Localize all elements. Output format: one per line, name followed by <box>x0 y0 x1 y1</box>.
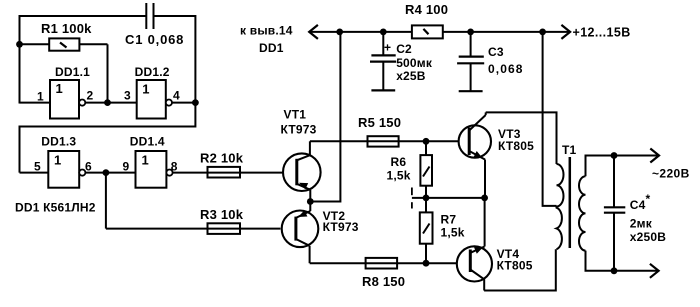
capacitor C4 2mk <box>604 156 666 271</box>
resistor R3 10k <box>200 207 244 234</box>
wire DD1.2 output to right rail <box>172 102 195 104</box>
svg-text:4: 4 <box>173 89 180 103</box>
transistor VT2 KT973 <box>282 202 319 264</box>
svg-text:DD1: DD1 <box>259 41 284 55</box>
node junction output top / C4 <box>611 152 618 159</box>
resistor R7 1.5k <box>420 198 465 263</box>
node junction DD1.2 out / feedback rail <box>192 99 199 106</box>
svg-text:1,5k: 1,5k <box>441 226 465 240</box>
svg-text:DD1.2: DD1.2 <box>135 65 170 79</box>
wire DD1.1 output to DD1.2 input <box>85 102 136 104</box>
wire main supply rail <box>309 31 570 33</box>
svg-text:VT1: VT1 <box>284 108 307 122</box>
node junction R5 wire / R6 top <box>423 138 430 145</box>
svg-text:КТ973: КТ973 <box>323 220 359 234</box>
node junction rail / C2 <box>380 29 387 36</box>
svg-text:DD1 К561ЛН2: DD1 К561ЛН2 <box>15 201 96 215</box>
svg-text:КТ805: КТ805 <box>497 259 533 273</box>
svg-text:C4: C4 <box>630 198 646 212</box>
arrow to pin 14 of DD1 <box>309 25 318 39</box>
resistor R8 150 <box>362 258 405 289</box>
svg-text:1: 1 <box>142 82 149 97</box>
svg-text:3: 3 <box>124 89 131 103</box>
arrow output bottom <box>650 264 659 278</box>
resistor R2 10k <box>200 151 244 178</box>
svg-text:C2: C2 <box>396 42 412 56</box>
wire from C1 right plate to DD1.2 output node <box>154 16 196 103</box>
arrow +12...15V <box>561 25 570 39</box>
svg-text:R4 100: R4 100 <box>405 2 448 17</box>
stub mark left of midpoint <box>411 188 413 196</box>
transistor VT4 KT805 <box>457 198 492 291</box>
svg-text:R1 100k: R1 100k <box>41 21 92 36</box>
svg-text:DD1.3: DD1.3 <box>41 134 76 148</box>
transistor VT3 KT805 <box>459 112 491 197</box>
arrow output top <box>650 149 659 163</box>
node junction VT3 emitter / VT4 emitter / midpoint wire <box>481 195 488 202</box>
wire secondary bottom to output <box>586 251 659 271</box>
resistor R5 150 <box>358 115 401 147</box>
node junction DD1.1 out / R1 feedback <box>104 99 111 106</box>
svg-text:5: 5 <box>34 160 41 174</box>
svg-text:C3: C3 <box>488 45 504 59</box>
svg-text:R7: R7 <box>441 213 457 227</box>
svg-text:9: 9 <box>123 160 130 174</box>
capacitor C2 500mk <box>370 32 433 91</box>
inverter DD1.2 <box>137 80 172 119</box>
wire feedback from DD1.2 output down and left to DD1.3 input <box>20 103 196 173</box>
svg-text:8: 8 <box>171 160 178 174</box>
wire DD1.1 input <box>20 102 51 104</box>
inverter DD1.1 <box>50 80 85 119</box>
svg-text:R3 10k: R3 10k <box>200 207 244 222</box>
svg-text:Т1: Т1 <box>562 143 577 157</box>
wire DD1.3 output to DD1.4 input <box>85 172 135 174</box>
svg-text:C1 0,068: C1 0,068 <box>125 32 184 47</box>
node junction output bottom / C4 <box>611 267 618 274</box>
transformer T1 core <box>569 157 572 248</box>
transformer T1 primary winding <box>557 164 564 249</box>
inverter DD1.3 <box>48 151 85 188</box>
wire DD1.4 output to R2 <box>173 172 283 174</box>
wire secondary top to output <box>586 156 660 177</box>
svg-text:2: 2 <box>87 89 94 103</box>
node junction rail / transformer tap line <box>539 29 546 36</box>
node junction rail / emitters line <box>336 29 343 36</box>
wire VT1 collector to R5 <box>310 140 459 142</box>
node junction R1 left / left rail <box>16 41 23 48</box>
svg-text:x250В: x250В <box>630 230 666 244</box>
svg-text:1: 1 <box>37 89 44 103</box>
node junction R7 bottom / R8 wire <box>423 260 430 267</box>
wire emitters to +12V rail <box>310 32 340 202</box>
svg-text:КТ973: КТ973 <box>281 123 317 137</box>
capacitor C1 <box>125 3 184 47</box>
svg-text:2мк: 2мк <box>630 217 653 231</box>
svg-text:DD1.4: DD1.4 <box>130 134 165 148</box>
svg-text:R2 10k: R2 10k <box>200 151 244 166</box>
transistor VT1 KT973 <box>283 141 321 201</box>
svg-text:500мк: 500мк <box>396 56 433 70</box>
resistor R4 100 <box>405 2 448 38</box>
node junction VT1 emitter / VT2 emitter <box>307 198 314 205</box>
wire to R3 <box>106 228 281 230</box>
wire VT2 collector to R8 <box>310 262 458 264</box>
node junction R6/R7 midpoint <box>423 195 430 202</box>
wire +12 down to VT3 collector wire crossing / to transformer center tap <box>543 32 557 206</box>
wire VT4 collector to transformer primary bottom <box>484 249 556 290</box>
svg-text:к выв.14: к выв.14 <box>240 24 293 38</box>
svg-text:1: 1 <box>142 153 149 168</box>
wire midpoint to VT3/VT4 junction <box>412 197 485 199</box>
svg-text:R8 150: R8 150 <box>362 274 405 289</box>
svg-text:+: + <box>384 41 391 55</box>
resistor R1 100k <box>20 21 108 51</box>
svg-text:*: * <box>646 192 651 206</box>
svg-text:DD1.1: DD1.1 <box>55 65 90 79</box>
svg-text:~220В: ~220В <box>652 167 690 181</box>
svg-text:1: 1 <box>54 153 61 168</box>
node junction DD1.3 out / branch to R3 <box>103 169 110 176</box>
capacitor C3 0.068 <box>457 32 523 91</box>
svg-text:1,5k: 1,5k <box>387 169 411 183</box>
wire DD1.3 output down to R3 row <box>105 173 107 229</box>
svg-text:0,068: 0,068 <box>488 62 524 76</box>
svg-text:x25В: x25В <box>396 69 426 83</box>
svg-text:1: 1 <box>56 81 63 96</box>
svg-text:+12...15В: +12...15В <box>573 26 631 40</box>
wire R1 right down to DD1.1 output node <box>107 44 109 102</box>
transformer T1 secondary winding <box>579 176 586 250</box>
wire VT3 collector to transformer primary top <box>486 112 557 164</box>
resistor R6 1.5k <box>387 141 433 198</box>
svg-text:6: 6 <box>85 160 92 174</box>
wire top-left loop from DD1.1 input up and over to C1 <box>20 16 147 104</box>
svg-text:КТ805: КТ805 <box>498 139 534 153</box>
wire DD1.3 input <box>20 172 49 174</box>
svg-text:R5 150: R5 150 <box>358 115 401 130</box>
svg-text:R6: R6 <box>391 155 407 169</box>
node junction rail / C3 <box>467 29 474 36</box>
inverter DD1.4 <box>136 151 173 188</box>
